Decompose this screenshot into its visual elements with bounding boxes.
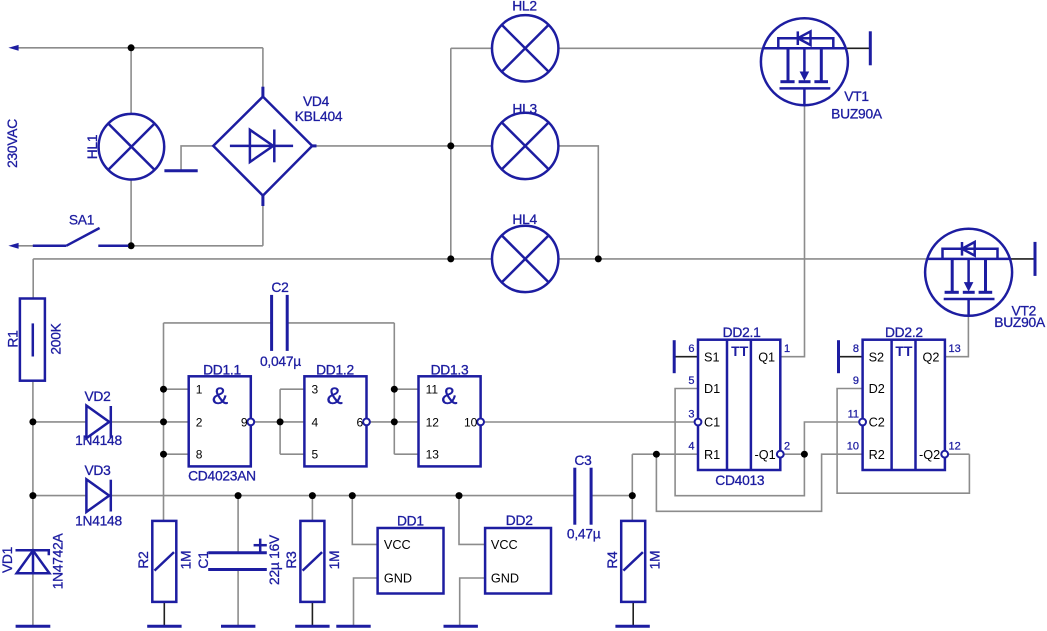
wire DD1.2 out to DD1.3	[370, 421, 419, 423]
wire lamp bus left of HL4	[33, 258, 492, 260]
node bridge output junction	[447, 142, 454, 149]
arrow top AC	[8, 45, 18, 51]
gate DD1.2 output bubble pin 6	[363, 419, 370, 426]
zener diode VD1	[16, 550, 50, 573]
wire HL1 top lead	[130, 48, 132, 114]
svg-text:DD1.2: DD1.2	[316, 363, 354, 378]
wire DD1.3 out to C1 clock	[484, 421, 695, 423]
svg-text:1M: 1M	[327, 551, 342, 570]
diode VD2	[86, 406, 110, 439]
wire bridge output to HL3	[314, 145, 492, 147]
resistor R1	[20, 299, 45, 381]
svg-text:C1: C1	[196, 551, 211, 568]
wire supply bus VD3 to C3	[111, 495, 574, 497]
svg-text:DD1: DD1	[397, 513, 424, 528]
svg-text:HL3: HL3	[512, 102, 537, 117]
wire C2 left	[164, 322, 271, 324]
wire DD1.1 input rail	[163, 323, 165, 521]
wire DD1.3 pin11 stub	[394, 388, 418, 390]
lamp HL2	[492, 15, 558, 81]
gate DD1.2	[304, 376, 366, 466]
flip-flop DD2.2 C2 bubble pin 11	[859, 419, 866, 426]
svg-text:TT: TT	[731, 343, 749, 359]
svg-text:VD1: VD1	[0, 547, 15, 573]
wire DD1.1 out to DD1.2	[254, 421, 304, 423]
wire HL3 right to bus	[558, 146, 598, 259]
terminal VT2 drain	[1034, 242, 1037, 276]
node VD3 VD1 junction	[29, 492, 36, 499]
svg-text:2: 2	[784, 441, 790, 453]
svg-text:1M: 1M	[648, 551, 663, 570]
svg-text:C1: C1	[704, 416, 720, 430]
pin names DD2.1	[704, 350, 776, 462]
svg-text:BUZ90A: BUZ90A	[994, 315, 1046, 330]
wire D1 feedback loop	[675, 389, 859, 496]
svg-text:10: 10	[847, 441, 859, 453]
svg-text:4: 4	[312, 415, 319, 429]
wire R1 pin line	[632, 453, 698, 455]
node HL3 HL4 junction	[595, 255, 602, 262]
node DD2 VCC bus junction	[456, 492, 463, 499]
bridge rectifier VD4	[213, 87, 316, 206]
gate DD1.3	[419, 376, 481, 466]
wire C1 top lead	[237, 496, 239, 552]
lamp HL1	[99, 114, 165, 180]
svg-text:R1: R1	[5, 330, 20, 347]
svg-text:8: 8	[853, 343, 859, 355]
node R3 bus junction	[309, 492, 316, 499]
svg-text:6: 6	[688, 343, 694, 355]
flip-flop DD2.2 -Q2 bubble pin 12	[941, 451, 948, 458]
node rail pin8 junction	[160, 451, 167, 458]
svg-text:1N4148: 1N4148	[75, 513, 122, 528]
svg-text:6: 6	[357, 415, 364, 429]
ground VD1	[16, 625, 51, 628]
svg-text:VT1: VT1	[844, 89, 869, 104]
wire bridge top lead	[262, 48, 264, 90]
svg-text:&: &	[327, 383, 343, 410]
svg-text:VD4: VD4	[303, 94, 330, 109]
svg-text:VD2: VD2	[84, 389, 110, 404]
resistor R2	[152, 521, 176, 602]
svg-text:1N4742A: 1N4742A	[51, 532, 66, 589]
wire R3 ground lead	[311, 602, 313, 626]
node C1 bus junction	[235, 492, 242, 499]
gate DD1.1	[189, 376, 251, 466]
wire top AC bus	[17, 47, 263, 49]
svg-text:D1: D1	[704, 382, 720, 396]
pin numbers DD2.1	[688, 343, 790, 453]
wire DD2 GND lead	[460, 578, 485, 626]
svg-text:DD2.1: DD2.1	[723, 325, 761, 340]
svg-text:10: 10	[464, 415, 478, 429]
node R1 VD2 junction	[29, 418, 36, 425]
wire R4 vertical to R1 line	[631, 454, 633, 520]
node rail pin1 junction	[160, 386, 167, 393]
node R4 bus junction	[629, 492, 636, 499]
svg-text:-Q1: -Q1	[755, 448, 776, 462]
wire DD1.2 input vertical	[279, 389, 281, 454]
svg-text:SA1: SA1	[69, 213, 94, 228]
flip-flop DD2.1 -Q1 bubble pin 2	[777, 451, 784, 458]
svg-text:CD4013: CD4013	[715, 473, 765, 488]
wire VD1 anode to ground	[32, 573, 34, 626]
wire VT2 drain stub	[1010, 258, 1035, 260]
wire VT1 drain stub	[846, 47, 870, 49]
gate DD1.1 output bubble pin 9	[247, 419, 254, 426]
wire Q1 to VT1 gate	[780, 105, 804, 357]
wire R4 ground lead	[632, 602, 634, 626]
wire HL1 bottom lead	[130, 180, 132, 246]
svg-text:230VAC: 230VAC	[5, 119, 20, 168]
ground R2	[147, 625, 181, 628]
svg-text:11: 11	[848, 408, 859, 420]
node rail pin2 junction	[160, 418, 167, 425]
wire DD1.2 pin3 stub	[280, 388, 304, 390]
svg-text:BUZ90A: BUZ90A	[831, 107, 883, 122]
wire R1 top lead	[32, 259, 34, 299]
svg-text:D2: D2	[869, 382, 885, 396]
wire S1 stub	[674, 356, 698, 358]
svg-text:12: 12	[949, 441, 961, 453]
svg-text:11: 11	[426, 383, 439, 397]
capacitor C3	[575, 468, 591, 525]
svg-text:5: 5	[688, 375, 694, 387]
svg-text:DD1.3: DD1.3	[431, 363, 469, 378]
IC power DD2 box	[485, 528, 551, 594]
ground DD1	[336, 625, 370, 628]
node SA1 HL1 junction	[128, 242, 135, 249]
svg-text:200K: 200K	[48, 322, 63, 354]
svg-text:8: 8	[196, 448, 203, 462]
svg-text:Q2: Q2	[923, 350, 940, 364]
lamp HL3	[492, 113, 558, 179]
svg-text:C3: C3	[574, 453, 592, 468]
svg-text:&: &	[212, 383, 228, 410]
resistor R3	[300, 521, 324, 602]
svg-text:R1: R1	[704, 448, 720, 462]
terminal S2	[837, 340, 840, 373]
svg-text:4: 4	[688, 441, 694, 453]
wire DD2 VCC lead	[459, 496, 485, 545]
wire DD1.3 input vertical	[393, 323, 395, 454]
wire HL2 to VT1	[558, 47, 763, 49]
terminal bridge AC2	[164, 169, 197, 172]
svg-text:1: 1	[196, 383, 203, 397]
wire lamp rail vertical	[450, 48, 452, 259]
svg-text:DD1.1: DD1.1	[203, 363, 241, 378]
IC power DD1 box	[378, 528, 444, 594]
transistor VT2	[925, 229, 1012, 316]
svg-text:R2: R2	[136, 551, 151, 568]
svg-text:3: 3	[312, 383, 319, 397]
svg-text:R4: R4	[605, 551, 620, 569]
wire -Q1 stub	[784, 453, 805, 455]
ground DD2	[444, 625, 478, 628]
svg-text:12: 12	[426, 415, 440, 429]
svg-text:GND: GND	[491, 572, 519, 586]
terminal S1	[673, 340, 676, 373]
wire DD1 VCC lead	[352, 496, 377, 545]
label C1 plus	[254, 539, 267, 552]
svg-text:S2: S2	[869, 350, 885, 364]
wire R1-R2 tie	[656, 454, 862, 511]
node HL1 top junction	[128, 44, 135, 51]
arrow bottom AC	[8, 243, 18, 249]
wire C1 ground lead	[237, 571, 239, 627]
svg-text:DD2.2: DD2.2	[885, 325, 923, 340]
svg-text:VCC: VCC	[384, 538, 411, 552]
capacitor C2	[272, 295, 288, 351]
svg-text:VD3: VD3	[84, 463, 111, 478]
svg-text:R2: R2	[869, 448, 885, 462]
svg-text:VCC: VCC	[491, 538, 518, 552]
ground R3	[295, 625, 329, 628]
wire R1 bottom to VD1	[32, 382, 34, 550]
svg-text:S1: S1	[704, 350, 720, 364]
node DD1 VCC bus junction	[349, 492, 356, 499]
wire SA1 to bridge bottom	[128, 245, 263, 247]
ground C1	[221, 625, 255, 628]
wire DD1.1 pin1 stub	[164, 388, 189, 390]
svg-text:TT: TT	[895, 343, 913, 359]
terminal VT1 drain	[869, 31, 872, 65]
wire DD1.2 pin5 stub	[280, 453, 304, 455]
capacitor C1	[208, 553, 267, 570]
svg-text:0,047µ: 0,047µ	[260, 354, 301, 369]
diode VD3	[86, 479, 110, 512]
svg-text:CD4023AN: CD4023AN	[188, 469, 256, 484]
wire Q2 to VT2 gate	[945, 316, 969, 357]
svg-text:HL1: HL1	[85, 135, 100, 160]
flip-flop DD2.1 box	[698, 340, 780, 470]
node DD1.2 input junction	[277, 418, 284, 425]
svg-text:KBL404: KBL404	[295, 109, 343, 124]
wire DD1.1 pin8 stub	[164, 453, 189, 455]
node DD1.3 pin12 junction	[391, 418, 398, 425]
svg-text:-Q2: -Q2	[919, 448, 940, 462]
pin numbers DD1.3	[426, 383, 478, 462]
wire VD3 line left	[33, 495, 87, 497]
node DD1.3 pin11 junction	[391, 386, 398, 393]
wire HL4 to VT2	[559, 258, 928, 260]
wire DD1 GND lead	[354, 578, 378, 626]
svg-text:DD2: DD2	[506, 513, 533, 528]
svg-text:1M: 1M	[179, 551, 194, 570]
svg-text:13: 13	[426, 448, 440, 462]
svg-text:HL2: HL2	[512, 0, 537, 14]
svg-text:&: &	[441, 383, 457, 410]
svg-text:3: 3	[688, 408, 694, 420]
svg-text:1N4148: 1N4148	[75, 433, 122, 448]
wire supply bus C3 to R4	[592, 495, 632, 497]
node -Q1 D1 junction	[801, 451, 808, 458]
svg-text:1: 1	[784, 343, 790, 355]
lamp HL4	[492, 226, 558, 292]
pin numbers DD1.1	[196, 383, 248, 462]
ground R4	[615, 625, 649, 628]
svg-text:22µ 16V: 22µ 16V	[267, 534, 282, 585]
wire D2 feedback loop	[837, 389, 969, 494]
wire -Q2 stub	[948, 453, 969, 455]
flip-flop DD2.1 C1 bubble pin 3	[695, 419, 702, 426]
svg-text:C2: C2	[271, 280, 288, 295]
svg-text:0,47µ: 0,47µ	[567, 526, 601, 541]
svg-text:C2: C2	[869, 416, 885, 430]
wire VD2 to DD1.1 pin2	[111, 421, 189, 423]
resistor R4	[621, 521, 645, 602]
node R1 R2 tie junction	[653, 451, 660, 458]
wire S2 stub	[839, 356, 863, 358]
wire R2 ground lead	[163, 602, 165, 626]
svg-text:2: 2	[196, 415, 203, 429]
pin numbers DD2.2	[847, 343, 961, 453]
switch SA1	[33, 228, 129, 246]
svg-text:Q1: Q1	[758, 350, 775, 364]
wire SA1 left stub	[17, 245, 34, 247]
transistor VT1	[761, 18, 848, 105]
wire R3 top lead	[311, 496, 313, 520]
pin names DD2.2	[869, 350, 941, 462]
pin numbers DD1.2	[312, 383, 364, 462]
wire HL2 left lead	[451, 47, 492, 49]
svg-text:5: 5	[312, 448, 319, 462]
svg-text:GND: GND	[384, 572, 412, 586]
flip-flop DD2.2 box	[863, 340, 945, 470]
node HL4 left junction	[447, 255, 454, 262]
wire VD2 line left	[33, 421, 87, 423]
svg-text:9: 9	[241, 415, 248, 429]
svg-text:13: 13	[949, 343, 961, 355]
wire DD1.3 pin13 stub	[394, 453, 418, 455]
wire bridge bottom lead	[262, 204, 264, 246]
svg-text:9: 9	[853, 375, 859, 387]
wire bridge left AC terminal lead	[181, 146, 213, 170]
gate DD1.3 output bubble pin 10	[477, 419, 484, 426]
svg-text:HL4: HL4	[512, 212, 537, 227]
wire C2 right	[288, 322, 394, 324]
svg-text:R3: R3	[284, 551, 299, 569]
